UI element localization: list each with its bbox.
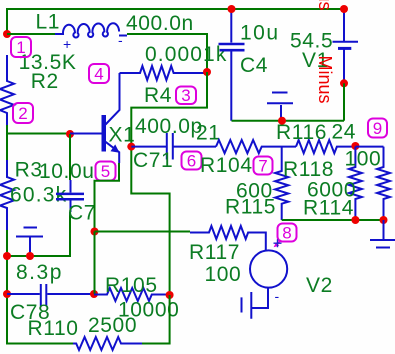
node 7 label: [254, 157, 273, 175]
resistor R104: [216, 140, 296, 153]
transistor X1 emitter arrow: [111, 144, 120, 152]
node junction dot top-left: [3, 30, 11, 38]
wire inductor left: [7, 33, 55, 35]
svg-text:100: 100: [205, 263, 242, 286]
svg-text:C71: C71: [133, 149, 173, 172]
svg-text:R2: R2: [31, 70, 59, 93]
svg-text:R110: R110: [28, 317, 79, 340]
resistor R118 vertical: [275, 147, 288, 220]
svg-text:0.0001k: 0.0001k: [145, 43, 227, 66]
capacitor C4: [230, 9, 232, 121]
svg-text:C7: C7: [68, 202, 96, 225]
node junction dot left wire: [3, 252, 11, 260]
capacitor C78: [7, 284, 94, 306]
inductor L1: [55, 23, 119, 37]
node 8 label: [278, 224, 297, 242]
wire left border top: [6, 8, 8, 34]
wire top border: [7, 8, 344, 10]
wire base left: [7, 125, 70, 134]
svg-text:Minus: Minus: [315, 56, 335, 104]
transistor X1 body: [102, 115, 107, 152]
node junction dot R117 row left: [91, 228, 99, 236]
wire resistor 100 top: [355, 146, 383, 148]
node junction dot collector out: [127, 143, 135, 151]
node 5 label: [96, 162, 116, 181]
svg-text:7: 7: [258, 157, 267, 176]
node junction dot R116 right: [351, 142, 359, 150]
svg-text:+: +: [63, 36, 71, 52]
transistor X1 base lead: [70, 133, 102, 135]
wire R117 row: [95, 231, 191, 233]
wire left column: [7, 134, 73, 344]
svg-text:8.3p: 8.3p: [16, 261, 63, 284]
svg-text:Plus: Plus: [315, 0, 335, 11]
svg-text:C4: C4: [240, 54, 268, 77]
resistor 100 vertical: [377, 147, 390, 220]
svg-text:4: 4: [94, 65, 103, 84]
node junction dot ground left: [26, 252, 34, 260]
node junction dot C78 right: [90, 290, 98, 298]
svg-text:8: 8: [282, 224, 291, 243]
svg-text:2: 2: [18, 104, 27, 123]
svg-text:6: 6: [187, 152, 196, 171]
svg-text:21: 21: [196, 122, 221, 145]
svg-text:5: 5: [101, 162, 110, 181]
resistor R114 vertical: [349, 147, 362, 220]
wire R105 right down: [142, 295, 170, 344]
svg-text:100: 100: [345, 148, 382, 171]
node junction dot base: [66, 130, 74, 138]
node junction dot R114 bottom: [351, 216, 359, 224]
svg-text:9: 9: [373, 119, 382, 138]
wire down from R117 row: [94, 232, 96, 295]
wire bottom right row: [282, 219, 384, 221]
node junction dot V1 top: [340, 5, 348, 13]
node junction dot C4 top: [228, 5, 236, 13]
svg-text:10.0u: 10.0u: [39, 160, 95, 183]
ground left (inverted): [16, 228, 43, 257]
ground mid (inverted): [267, 93, 293, 121]
node 4 label: [89, 64, 109, 83]
wire feedback loop: [131, 72, 207, 295]
svg-text:2500: 2500: [88, 314, 137, 337]
svg-text:24: 24: [332, 121, 357, 144]
node 1 label: [11, 37, 31, 57]
resistor R116: [296, 140, 355, 153]
svg-text:R104: R104: [200, 154, 253, 177]
wire C7 bottom: [7, 212, 70, 256]
svg-text:1: 1: [16, 38, 25, 57]
resistor R105: [94, 288, 170, 301]
resistor R4: [120, 66, 208, 80]
svg-text:400.0n: 400.0n: [126, 12, 194, 35]
svg-text:R105: R105: [105, 274, 158, 297]
capacitor C7: [70, 180, 72, 212]
svg-text:V2: V2: [306, 274, 333, 297]
node junction dot C78 left: [3, 290, 11, 298]
node 3 label: [176, 87, 196, 105]
svg-text:L1: L1: [36, 10, 61, 33]
node junction dot 100 bottom: [380, 216, 388, 224]
ground bottom right: [370, 220, 395, 248]
source V2 bottom lead: [242, 288, 269, 319]
node junction dot R105 right: [166, 291, 174, 299]
node junction dot R4 right: [203, 68, 211, 76]
wire V1 minus down: [343, 83, 345, 120]
node junction dot ground mid: [278, 117, 286, 125]
svg-text:3: 3: [181, 86, 190, 105]
resistor R110: [73, 337, 142, 350]
resistor R2: [0, 55, 14, 133]
svg-text:R115: R115: [225, 196, 276, 219]
resistor R3: [0, 160, 14, 230]
svg-text:-: -: [118, 32, 123, 48]
svg-text:-: -: [275, 288, 280, 304]
node 2 label: [13, 103, 33, 123]
resistor R117: [190, 226, 266, 251]
node 8 arrow: [276, 240, 281, 245]
capacitor C71: [131, 133, 216, 160]
transistor X1 collector: [106, 73, 120, 125]
svg-text:10u: 10u: [240, 22, 280, 45]
node 9 label: [368, 119, 387, 138]
node junction dot V1 bottom: [340, 79, 348, 87]
svg-text:R4: R4: [144, 84, 172, 107]
wire inductor right to R4 corner: [127, 34, 207, 72]
wire emitter to R117 row: [95, 163, 120, 232]
transistor X1 emitter: [106, 142, 120, 163]
svg-text:R117: R117: [189, 241, 240, 264]
svg-text:R114: R114: [303, 197, 354, 220]
node 6 label: [182, 152, 202, 170]
source V2 circle: [250, 250, 287, 287]
svg-text:R116: R116: [276, 121, 327, 144]
wire mid horizontal: [232, 120, 345, 122]
battery V1: [333, 9, 359, 83]
wire C7 top: [69, 134, 71, 180]
svg-text:400.0p: 400.0p: [135, 115, 203, 138]
